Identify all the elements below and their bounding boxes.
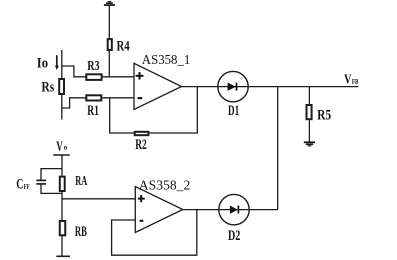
svg-text:V: V	[344, 73, 351, 88]
svg-text:R2: R2	[135, 137, 147, 153]
svg-text:RB: RB	[75, 224, 87, 240]
svg-text:R5: R5	[317, 108, 331, 124]
svg-text:R1: R1	[87, 103, 99, 119]
svg-text:o: o	[64, 144, 68, 152]
svg-text:AS358_2: AS358_2	[139, 177, 191, 192]
svg-text:R4: R4	[117, 38, 131, 54]
svg-text:Rs: Rs	[41, 79, 54, 95]
svg-text:D1: D1	[228, 103, 239, 119]
svg-text:Io: Io	[37, 56, 48, 72]
svg-text:D2: D2	[228, 228, 240, 244]
svg-text:V: V	[56, 139, 63, 155]
svg-text:FF: FF	[24, 182, 30, 191]
svg-text:AS358_1: AS358_1	[142, 52, 191, 67]
svg-text:FB: FB	[352, 77, 359, 86]
svg-text:RA: RA	[75, 174, 88, 189]
svg-text:R3: R3	[87, 59, 99, 74]
svg-text:C: C	[16, 177, 23, 193]
